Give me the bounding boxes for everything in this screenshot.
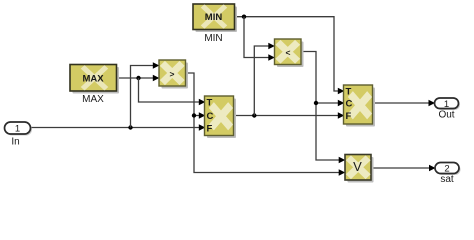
output port Out (1) — [435, 98, 461, 110]
svg-text:V: V — [353, 159, 362, 174]
constant block MAX — [70, 65, 119, 94]
svg-text:C: C — [207, 111, 214, 122]
svg-text:T: T — [207, 98, 213, 109]
svg-text:C: C — [346, 99, 353, 110]
svg-text:>: > — [170, 69, 175, 79]
wire SW2 output to Out port — [373, 100, 436, 107]
wire MIN to SW2 T input — [235, 17, 345, 95]
svg-text:1: 1 — [444, 99, 449, 110]
svg-text:F: F — [207, 124, 213, 135]
wire MIN branch to relational a<b bottom input — [244, 17, 275, 61]
switch block SW2 (T/C/F) — [344, 85, 376, 127]
svg-text:MIN: MIN — [205, 12, 223, 23]
junction on MAX wire — [136, 76, 140, 80]
svg-text:MIN: MIN — [204, 33, 222, 44]
switch block SW1 (T/C/F) — [205, 96, 237, 138]
junction a>b output at SW1 C level — [192, 113, 196, 117]
svg-text:sat: sat — [440, 174, 454, 185]
svg-text:Out: Out — [438, 110, 454, 121]
wire MAX to relational a>b bottom input — [117, 75, 160, 82]
logical OR block V — [345, 155, 374, 183]
svg-text:2: 2 — [444, 164, 449, 175]
relational operator block a>b — [159, 60, 188, 89]
wire OR output to sat port — [371, 165, 436, 172]
wire In to SW1 F input — [30, 124, 205, 131]
input port In (1) — [5, 122, 33, 136]
svg-text:1: 1 — [15, 124, 20, 135]
svg-text:MAX: MAX — [82, 94, 104, 105]
svg-text:F: F — [346, 111, 352, 122]
junction on MIN wire — [242, 15, 246, 19]
wire SW1 output to SW2 F input — [234, 112, 345, 119]
wire MAX branch to SW1 T input — [139, 78, 206, 105]
svg-text:<: < — [286, 48, 291, 58]
relational operator block a<b — [275, 39, 304, 67]
svg-text:T: T — [346, 87, 352, 98]
wire a<b output down to SW2 C and OR top input — [301, 52, 345, 164]
junction a<b output at SW2 C level — [314, 101, 318, 105]
constant block MIN — [193, 4, 237, 32]
wire a>b output down to SW1 C and OR bottom input — [186, 73, 346, 176]
output port sat (2) — [435, 163, 461, 176]
wire In branch to relational a>b top input — [131, 62, 160, 127]
wire SW1 output branch to relational a<b top input — [254, 43, 274, 116]
junction on In wire — [128, 125, 132, 129]
junction on SW1 output wire — [252, 113, 256, 117]
svg-text:In: In — [11, 137, 19, 148]
svg-text:MAX: MAX — [82, 74, 104, 85]
